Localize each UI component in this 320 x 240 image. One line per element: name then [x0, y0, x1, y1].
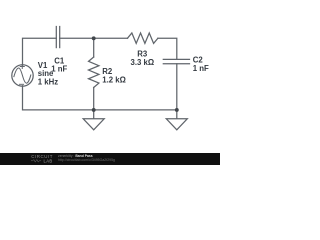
- wire: R2 bottom to node B: [93, 88, 95, 110]
- svg-text:R2: R2: [102, 67, 113, 76]
- svg-text:LAB: LAB: [44, 159, 53, 164]
- watermark bar: [0, 153, 220, 165]
- voltage source V1 (sine): [12, 64, 33, 86]
- capacitor C2 (vertical, plates horizontal): [163, 59, 189, 63]
- svg-text:http://circuitlab.com/c/3495Ga: http://circuitlab.com/c/3495Ga2f295g: [58, 158, 115, 162]
- node B junction dot (R2/ground/bottom rail): [92, 108, 96, 112]
- wire: C2 bottom plate down to node C: [176, 64, 178, 110]
- wire: node A to R3 left lead: [94, 37, 128, 39]
- svg-text:1 nF: 1 nF: [51, 64, 67, 73]
- svg-text:1 kHz: 1 kHz: [38, 78, 58, 87]
- capacitor C1 (horizontal, plates vertical): [56, 27, 59, 48]
- svg-text:3.3 kΩ: 3.3 kΩ: [131, 58, 155, 67]
- svg-text:1.2 kΩ: 1.2 kΩ: [102, 76, 126, 85]
- wire: top-left from V1 top up and right to C1: [23, 38, 57, 65]
- node C junction dot (C2/ground/bottom rail): [175, 108, 179, 112]
- wire: R3 right lead to corner, down to C2: [158, 38, 177, 59]
- node A junction dot (C1/R2/R3): [92, 36, 96, 40]
- wire: C1 right plate to node A: [60, 37, 94, 39]
- svg-text:C2: C2: [193, 55, 204, 64]
- ground symbol under C2: [166, 110, 187, 130]
- wire: node A down to R2 top: [93, 38, 95, 57]
- resistor R2 (vertical zigzag): [89, 57, 99, 88]
- resistor R3 (horizontal zigzag): [128, 33, 158, 43]
- svg-text:1 nF: 1 nF: [193, 64, 209, 73]
- ground symbol under R2: [83, 110, 104, 130]
- wire: bottom rail from V1 bottom to node C: [23, 86, 177, 110]
